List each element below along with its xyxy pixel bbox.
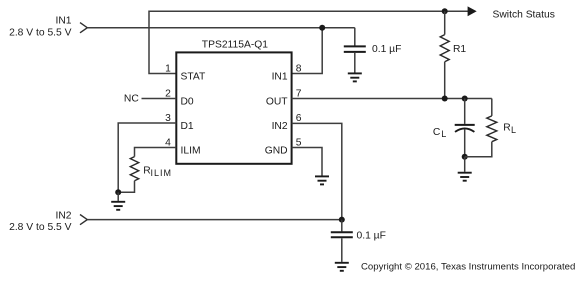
svg-text:6: 6 (296, 113, 302, 124)
wire IN2 input line (87, 219, 341, 221)
ground (below C1) (348, 73, 362, 81)
wire STAT pin 1 up to Switch Status rail (149, 11, 468, 73)
svg-text:0.1 µF: 0.1 µF (372, 44, 401, 55)
node junction IN2 / pin 6 / C2 (339, 217, 345, 223)
svg-text:L: L (511, 125, 516, 135)
wire IN1 input line (87, 27, 355, 29)
wire OUT pin 7 output line (292, 98, 492, 100)
resistor R1 (440, 35, 449, 62)
wire pin 3 D1 to ground node (118, 123, 176, 192)
resistor RILIM (130, 157, 138, 181)
node junction OUT / R1 (442, 96, 448, 102)
svg-text:2.8 V to 5.5 V: 2.8 V to 5.5 V (9, 222, 72, 233)
svg-text:IN1: IN1 (55, 16, 71, 27)
node junction OUT / CL (462, 96, 468, 102)
svg-text:R: R (503, 123, 510, 134)
wire OUT corner down to RL (491, 99, 493, 116)
svg-text:IN2: IN2 (55, 210, 71, 221)
svg-text:R1: R1 (453, 44, 466, 55)
svg-text:Copyright © 2016, Texas Instru: Copyright © 2016, Texas Instruments Inco… (361, 261, 575, 272)
capacitor CL (455, 99, 475, 157)
wire pin 8 IN1 to input line (292, 28, 323, 74)
svg-text:D0: D0 (181, 96, 194, 107)
wire pin 5 GND to ground (292, 148, 322, 176)
wire RILIM bottom to ground node (118, 181, 134, 193)
svg-text:IN1: IN1 (272, 72, 288, 83)
svg-text:8: 8 (296, 64, 302, 75)
wire NC to pin 2 D0 (142, 98, 177, 100)
svg-text:1: 1 (165, 64, 171, 75)
wire pin 6 IN2 down to input line (292, 123, 342, 219)
svg-text:ILIM: ILIM (151, 168, 173, 178)
node junction CL / RL / ground (462, 154, 468, 160)
node junction D1 / RILIM / ground (115, 189, 121, 195)
svg-text:GND: GND (265, 146, 288, 157)
ground (below C2) (335, 263, 349, 271)
capacitor C2 0.1 uF (331, 220, 353, 262)
svg-text:IN2: IN2 (272, 121, 288, 132)
svg-text:NC: NC (124, 94, 139, 105)
port IN2 input chevron (80, 215, 87, 225)
arrow Switch Status output (468, 6, 477, 16)
svg-text:C: C (433, 127, 441, 138)
svg-text:D1: D1 (181, 121, 194, 132)
IC U1 TPS2115A-Q1 body (176, 52, 291, 163)
node junction IN1 line / pin 8 (319, 25, 325, 31)
ground (pin 5 GND) (315, 176, 329, 184)
svg-text:2.8 V to 5.5 V: 2.8 V to 5.5 V (9, 28, 72, 39)
svg-text:STAT: STAT (181, 72, 206, 83)
node junction rail / R1 (442, 8, 448, 14)
wire R1 top from rail (444, 11, 446, 34)
wire CL node to ground (464, 157, 466, 172)
port IN1 input chevron (80, 23, 87, 33)
wire R1 bottom to OUT line (444, 62, 446, 99)
ground (below CL) (458, 173, 472, 181)
wire pin 4 ILIM to resistor RILIM (135, 148, 177, 157)
ground (below RILIM node) (111, 202, 125, 210)
capacitor C1 0.1 uF (344, 28, 366, 73)
svg-text:0.1 µF: 0.1 µF (357, 230, 386, 241)
svg-text:OUT: OUT (266, 96, 288, 107)
wire RL bottom to CL node (465, 142, 492, 157)
resistor RL (487, 116, 497, 142)
svg-text:TPS2115A-Q1: TPS2115A-Q1 (202, 39, 268, 50)
svg-text:ILIM: ILIM (181, 146, 201, 157)
svg-text:L: L (441, 129, 446, 139)
svg-text:Switch Status: Switch Status (493, 10, 555, 21)
wire node to ground (117, 192, 119, 201)
